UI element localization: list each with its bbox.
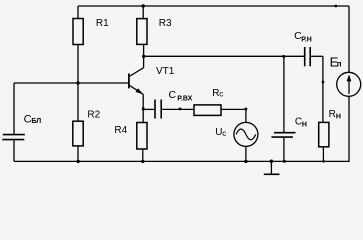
wire Ep bottom to rail [348,96,350,162]
svg-text:VT1: VT1 [156,66,175,77]
node joint dot before Rc [179,108,182,111]
node Rn-rail dot [322,160,324,162]
arrow inside Ep [347,75,352,94]
wire R4 top lead [142,109,144,122]
node Uc-rail dot [244,160,247,163]
wire R2 bottom lead [77,146,79,162]
node joint dot at Uc corner [245,108,248,111]
resistor R3 [137,19,147,45]
svg-text:Н: Н [336,114,341,121]
node Cn top junction dot [282,55,285,58]
node collector junction dot [142,55,145,58]
wire Uc bottom to rail [245,146,247,161]
wire Cn top lead [283,56,285,132]
svg-text:R4: R4 [114,125,127,136]
wire right drop to Ep [348,6,350,73]
resistor R2 [73,121,83,146]
wire bottom ground rail [14,160,349,162]
sine wave inside Uc [236,129,256,140]
wire down to Rn [322,56,324,122]
node emitter junction dot [142,108,145,111]
svg-text:C: C [24,113,32,125]
wire collector row to Crn [144,55,305,57]
resistor R4 [137,123,147,150]
capacitor Cn [271,133,295,137]
wire R3 bottom to collector node [143,44,145,56]
wire Cbl bottom lead [13,140,15,161]
node ground-rail dot [270,160,274,164]
label Rc [212,88,223,99]
wire Crvx to Rc [162,108,194,110]
svg-text:C: C [169,89,177,101]
wire R1 top lead [77,6,79,19]
wire Cbl top lead [13,83,15,134]
wire emitter to Crvx [143,108,154,110]
wire Cn bottom lead [283,138,285,162]
wire Rn bottom lead [322,147,324,162]
node R4-rail dot [141,160,144,163]
source Ep circle [337,72,361,96]
label Cn [295,116,307,128]
source Uc circle [234,122,258,146]
capacitor Crvx [155,100,161,119]
svg-text:Н: Н [302,122,307,129]
capacitor Crn [305,47,311,66]
wire Crn to corner [311,55,323,57]
capacitor Cbl [2,135,25,140]
svg-text:с: с [222,129,226,138]
node base junction dot [76,81,79,84]
wire top supply rail [78,5,349,7]
label Rn [329,109,341,121]
svg-text:п: п [337,60,342,69]
node R3 top rail dot [142,4,145,7]
wire R4 bottom lead [142,149,144,161]
wire R1 bottom to R2 top [77,45,79,122]
node R2-rail dot [77,160,80,163]
svg-text:R1: R1 [96,18,109,29]
label Uc [215,127,226,138]
svg-text:с: с [219,90,223,99]
svg-text:БЛ: БЛ [31,118,41,125]
svg-text:R3: R3 [159,18,172,29]
svg-text:Р.ВХ: Р.ВХ [177,96,192,103]
resistor Rc [194,105,221,116]
wire R3 top lead [142,6,144,19]
resistor Rn [319,122,329,146]
ground [264,161,280,174]
node rail joint dot right [335,5,337,7]
label Crvx [169,89,193,103]
label Cbl [24,113,42,125]
svg-text:R: R [329,109,336,120]
transistor VT1 [129,56,144,109]
wire down to Uc [245,109,247,122]
resistor R1 [73,19,83,45]
svg-text:R2: R2 [87,110,100,121]
label Crn [294,30,312,44]
node Cn-rail dot [283,160,286,163]
svg-text:Р.Н: Р.Н [301,36,312,43]
wire Rc to Uc corner [221,108,246,110]
node joint dot on Rn wire [322,81,325,84]
label Ep [330,55,342,70]
wire base line from Cbl to VT1 base [14,82,128,84]
